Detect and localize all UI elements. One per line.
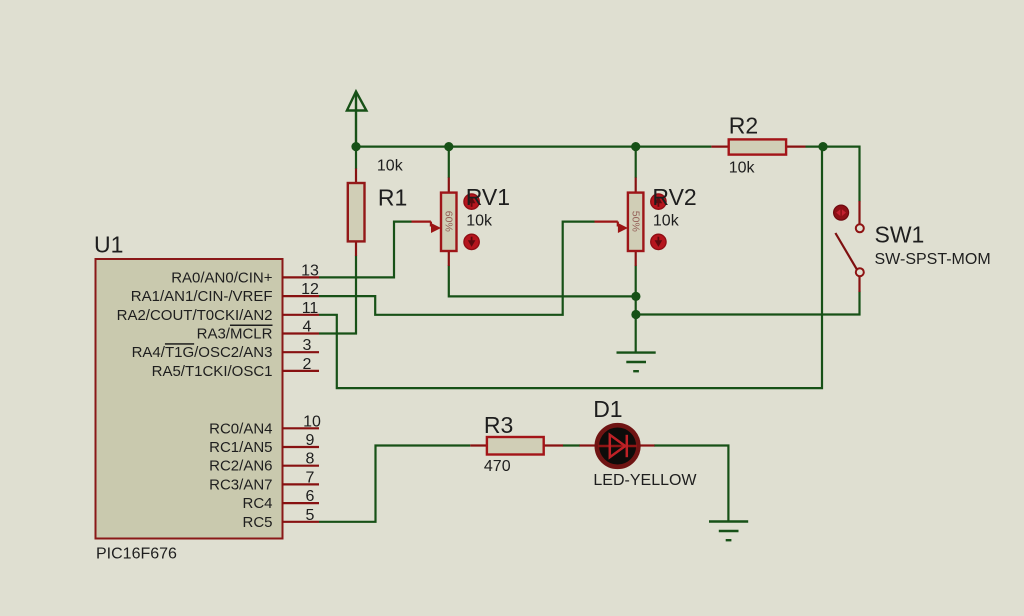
resistor R3 left pin stub (470, 444, 487, 446)
pin 5 stub (282, 521, 319, 523)
power symbol VCC arrow (347, 92, 367, 147)
svg-text:LED-YELLOW: LED-YELLOW (593, 472, 697, 489)
switch SW1 bottom pin stub (858, 276, 860, 292)
svg-text:R1: R1 (378, 184, 407, 210)
wire: RV2 bottom down to ground (635, 266, 637, 353)
wire: RV1 top to rail (448, 147, 450, 178)
resistor R3 body (487, 437, 544, 455)
svg-text:10k: 10k (729, 159, 756, 176)
ground symbol right (under LED) (709, 522, 748, 541)
resistor R2 left pin stub (711, 146, 728, 148)
svg-text:RV2: RV2 (652, 184, 696, 210)
wire: R1 bottom down to pin4 line (355, 256, 357, 335)
svg-text:6: 6 (306, 488, 315, 505)
svg-text:4: 4 (303, 319, 312, 336)
pin 4 stub (282, 332, 319, 334)
wire: top rail right of R2 to corner and down to SW1 (806, 147, 860, 202)
junction node ground column / SW1 bottom wire (631, 310, 640, 319)
potentiometer RV2 bottom pin stub (635, 251, 637, 266)
switch SW1 top pin stub (858, 201, 860, 224)
potentiometer RV1 top pin stub (448, 178, 450, 193)
svg-text:60%: 60% (443, 211, 455, 232)
LED D1 left pin stub (580, 444, 596, 446)
LED D1 internal wire (598, 445, 637, 447)
pin 10 stub (282, 427, 319, 429)
svg-text:RA4/T1G/OSC2/AN3: RA4/T1G/OSC2/AN3 (132, 344, 273, 361)
wire: pin 12 (RA1) to RV2 wiper (319, 222, 595, 315)
svg-text:5: 5 (306, 507, 315, 524)
LED D1 body circle (597, 425, 639, 467)
switch SW1 top contact (856, 224, 864, 232)
RV2 decrement button (651, 234, 666, 249)
svg-text:10k: 10k (653, 213, 680, 230)
wire: pin 4 (RA3/MCLR) to R1 bottom (319, 332, 357, 334)
pin 12 stub (282, 295, 319, 297)
U1 PIC16F676 body (96, 259, 283, 539)
wire: RV1 bottom to ground node (449, 266, 636, 297)
svg-text:50%: 50% (630, 211, 642, 232)
RV2 increment button (651, 194, 666, 209)
LED D1 diode glyph (610, 435, 627, 457)
potentiometer RV1 bottom pin stub (448, 251, 450, 266)
svg-text:SW1: SW1 (875, 222, 925, 248)
resistor R3 right pin stub (544, 444, 563, 446)
junction node at rail/R1/power (351, 142, 360, 151)
RV2 wiper arrow (595, 222, 628, 233)
wire: ground node to SW1 bottom (636, 292, 860, 315)
pin 3 stub (282, 351, 319, 353)
SW1 toggle button (834, 205, 849, 220)
svg-text:RA3/MCLR: RA3/MCLR (197, 326, 273, 343)
ground symbol middle (under RV2) (617, 353, 656, 372)
LED D1 right pin stub (640, 444, 655, 446)
resistor R1 body (348, 183, 365, 241)
svg-text:8: 8 (306, 451, 315, 468)
resistor R1 bottom pin stub (355, 241, 357, 256)
svg-text:13: 13 (301, 262, 319, 279)
resistor R1 top pin stub (355, 169, 357, 184)
RV1 wiper arrow (412, 222, 442, 233)
svg-text:PIC16F676: PIC16F676 (96, 546, 177, 563)
resistor R2 body (729, 139, 786, 154)
pin 6 stub (282, 502, 319, 504)
svg-text:RA0/AN0/CIN+: RA0/AN0/CIN+ (171, 269, 273, 286)
switch SW1 bottom contact (856, 268, 864, 276)
wire: top power rail left segment (356, 146, 711, 148)
resistor R2 right pin stub (786, 146, 805, 148)
junction node RV1 bottom / RV2 ground column (631, 292, 640, 301)
svg-text:D1: D1 (593, 396, 622, 422)
svg-text:RA1/AN1/CIN-/VREF: RA1/AN1/CIN-/VREF (131, 288, 273, 305)
pin 2 stub (282, 370, 319, 372)
pin 11 stub (282, 314, 319, 316)
wire: pin 13 (RA0) to RV1 wiper (319, 222, 412, 278)
RV1 increment button (464, 194, 479, 209)
svg-text:10k: 10k (466, 213, 493, 230)
switch SW1 lever (835, 233, 856, 269)
svg-text:RC0/AN4: RC0/AN4 (209, 420, 272, 437)
wire: R3 to D1 (563, 444, 580, 446)
svg-text:SW-SPST-MOM: SW-SPST-MOM (875, 251, 991, 268)
svg-text:R3: R3 (484, 412, 513, 438)
svg-text:3: 3 (303, 337, 312, 354)
svg-text:9: 9 (306, 432, 315, 449)
potentiometer RV2 body (628, 193, 644, 251)
svg-text:RA5/T1CKI/OSC1: RA5/T1CKI/OSC1 (152, 363, 273, 380)
svg-text:RC1/AN5: RC1/AN5 (209, 439, 272, 456)
wire: RV2 top to rail (635, 147, 637, 178)
svg-text:RC2/AN6: RC2/AN6 (209, 458, 272, 475)
svg-text:RC3/AN7: RC3/AN7 (209, 476, 272, 493)
wire: pin 11 (RA2) long route to R2/SW1 node (319, 147, 822, 389)
wire: R1 top from rail (355, 147, 357, 169)
svg-text:RC5: RC5 (242, 514, 272, 531)
pin 8 stub (282, 465, 319, 467)
potentiometer RV1 body (441, 193, 457, 251)
pin 7 stub (282, 483, 319, 485)
svg-text:7: 7 (306, 469, 315, 486)
svg-text:10: 10 (303, 413, 321, 430)
junction node at rail/RV2 top (631, 142, 640, 151)
svg-text:U1: U1 (94, 232, 123, 258)
svg-text:RC4: RC4 (242, 495, 272, 512)
pin 13 stub (282, 276, 319, 278)
svg-text:12: 12 (301, 281, 319, 298)
RV1 decrement button (464, 234, 479, 249)
junction node at rail/RV1 top (444, 142, 453, 151)
svg-text:R2: R2 (729, 112, 758, 138)
svg-text:11: 11 (302, 300, 319, 317)
wire: D1 to right ground (654, 446, 728, 522)
wire: pin 5 (RC5) to R3 (319, 446, 470, 522)
potentiometer RV2 top pin stub (635, 178, 637, 193)
pin 9 stub (282, 446, 319, 448)
svg-text:RA2/COUT/T0CKI/AN2: RA2/COUT/T0CKI/AN2 (117, 307, 273, 324)
junction node at R2 right / SW1 / RA2 wire (818, 142, 827, 151)
svg-text:470: 470 (484, 458, 511, 475)
svg-text:10k: 10k (377, 158, 404, 175)
svg-text:2: 2 (303, 356, 312, 373)
svg-text:RV1: RV1 (466, 184, 510, 210)
